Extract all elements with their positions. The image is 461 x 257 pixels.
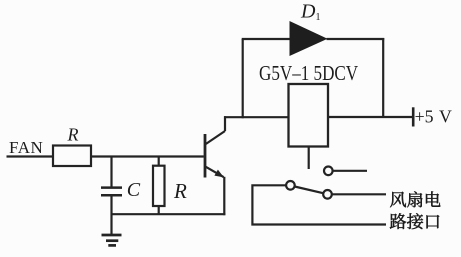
- wire bottom rail: [111, 213, 226, 215]
- wire relay armature stub: [308, 147, 310, 170]
- wire emitter vertical: [223, 177, 225, 215]
- wire R2 top stub: [158, 157, 160, 166]
- diode D1: [290, 21, 328, 56]
- switch blade: [295, 187, 324, 194]
- resistor R1: [53, 146, 91, 167]
- wire capacitor branch: [110, 157, 112, 188]
- wire collector rail: [224, 116, 289, 118]
- switch lower contact circle: [323, 190, 332, 199]
- wire lower contact to fan port: [332, 193, 386, 195]
- svg-text:+5 V: +5 V: [415, 106, 452, 126]
- wire base: [91, 155, 204, 157]
- transistor Q1: [205, 131, 225, 178]
- svg-text:C: C: [127, 179, 141, 201]
- wire collector vertical: [224, 116, 226, 131]
- resistor R2: [153, 166, 165, 206]
- label fan circuit line1 风扇电: [390, 191, 440, 207]
- wire rail right: [328, 116, 413, 118]
- wire upper contact: [333, 170, 367, 172]
- svg-text:D1: D1: [300, 1, 320, 23]
- power +5V terminal bar: [412, 107, 415, 126]
- wire input: [7, 155, 54, 157]
- wire diode left drop: [242, 39, 244, 118]
- svg-text:G5V–1 5DCV: G5V–1 5DCV: [259, 62, 358, 85]
- switch common contact circle: [286, 181, 295, 190]
- svg-text:FAN: FAN: [9, 138, 43, 157]
- capacitor C: [101, 188, 122, 196]
- wire common return: [252, 185, 386, 224]
- svg-text:R: R: [67, 125, 79, 145]
- wire R2 bottom stub: [158, 206, 160, 214]
- contact upper terminal circle: [324, 167, 333, 176]
- relay coil K1: [289, 84, 329, 147]
- ground: [102, 214, 122, 245]
- wire diode right drop: [382, 38, 384, 117]
- wire diode anode: [242, 38, 291, 40]
- wire diode cathode: [327, 38, 385, 40]
- wire capacitor to rail: [110, 195, 112, 214]
- label fan circuit line2 路接口: [390, 213, 439, 229]
- svg-text:R: R: [173, 179, 187, 203]
